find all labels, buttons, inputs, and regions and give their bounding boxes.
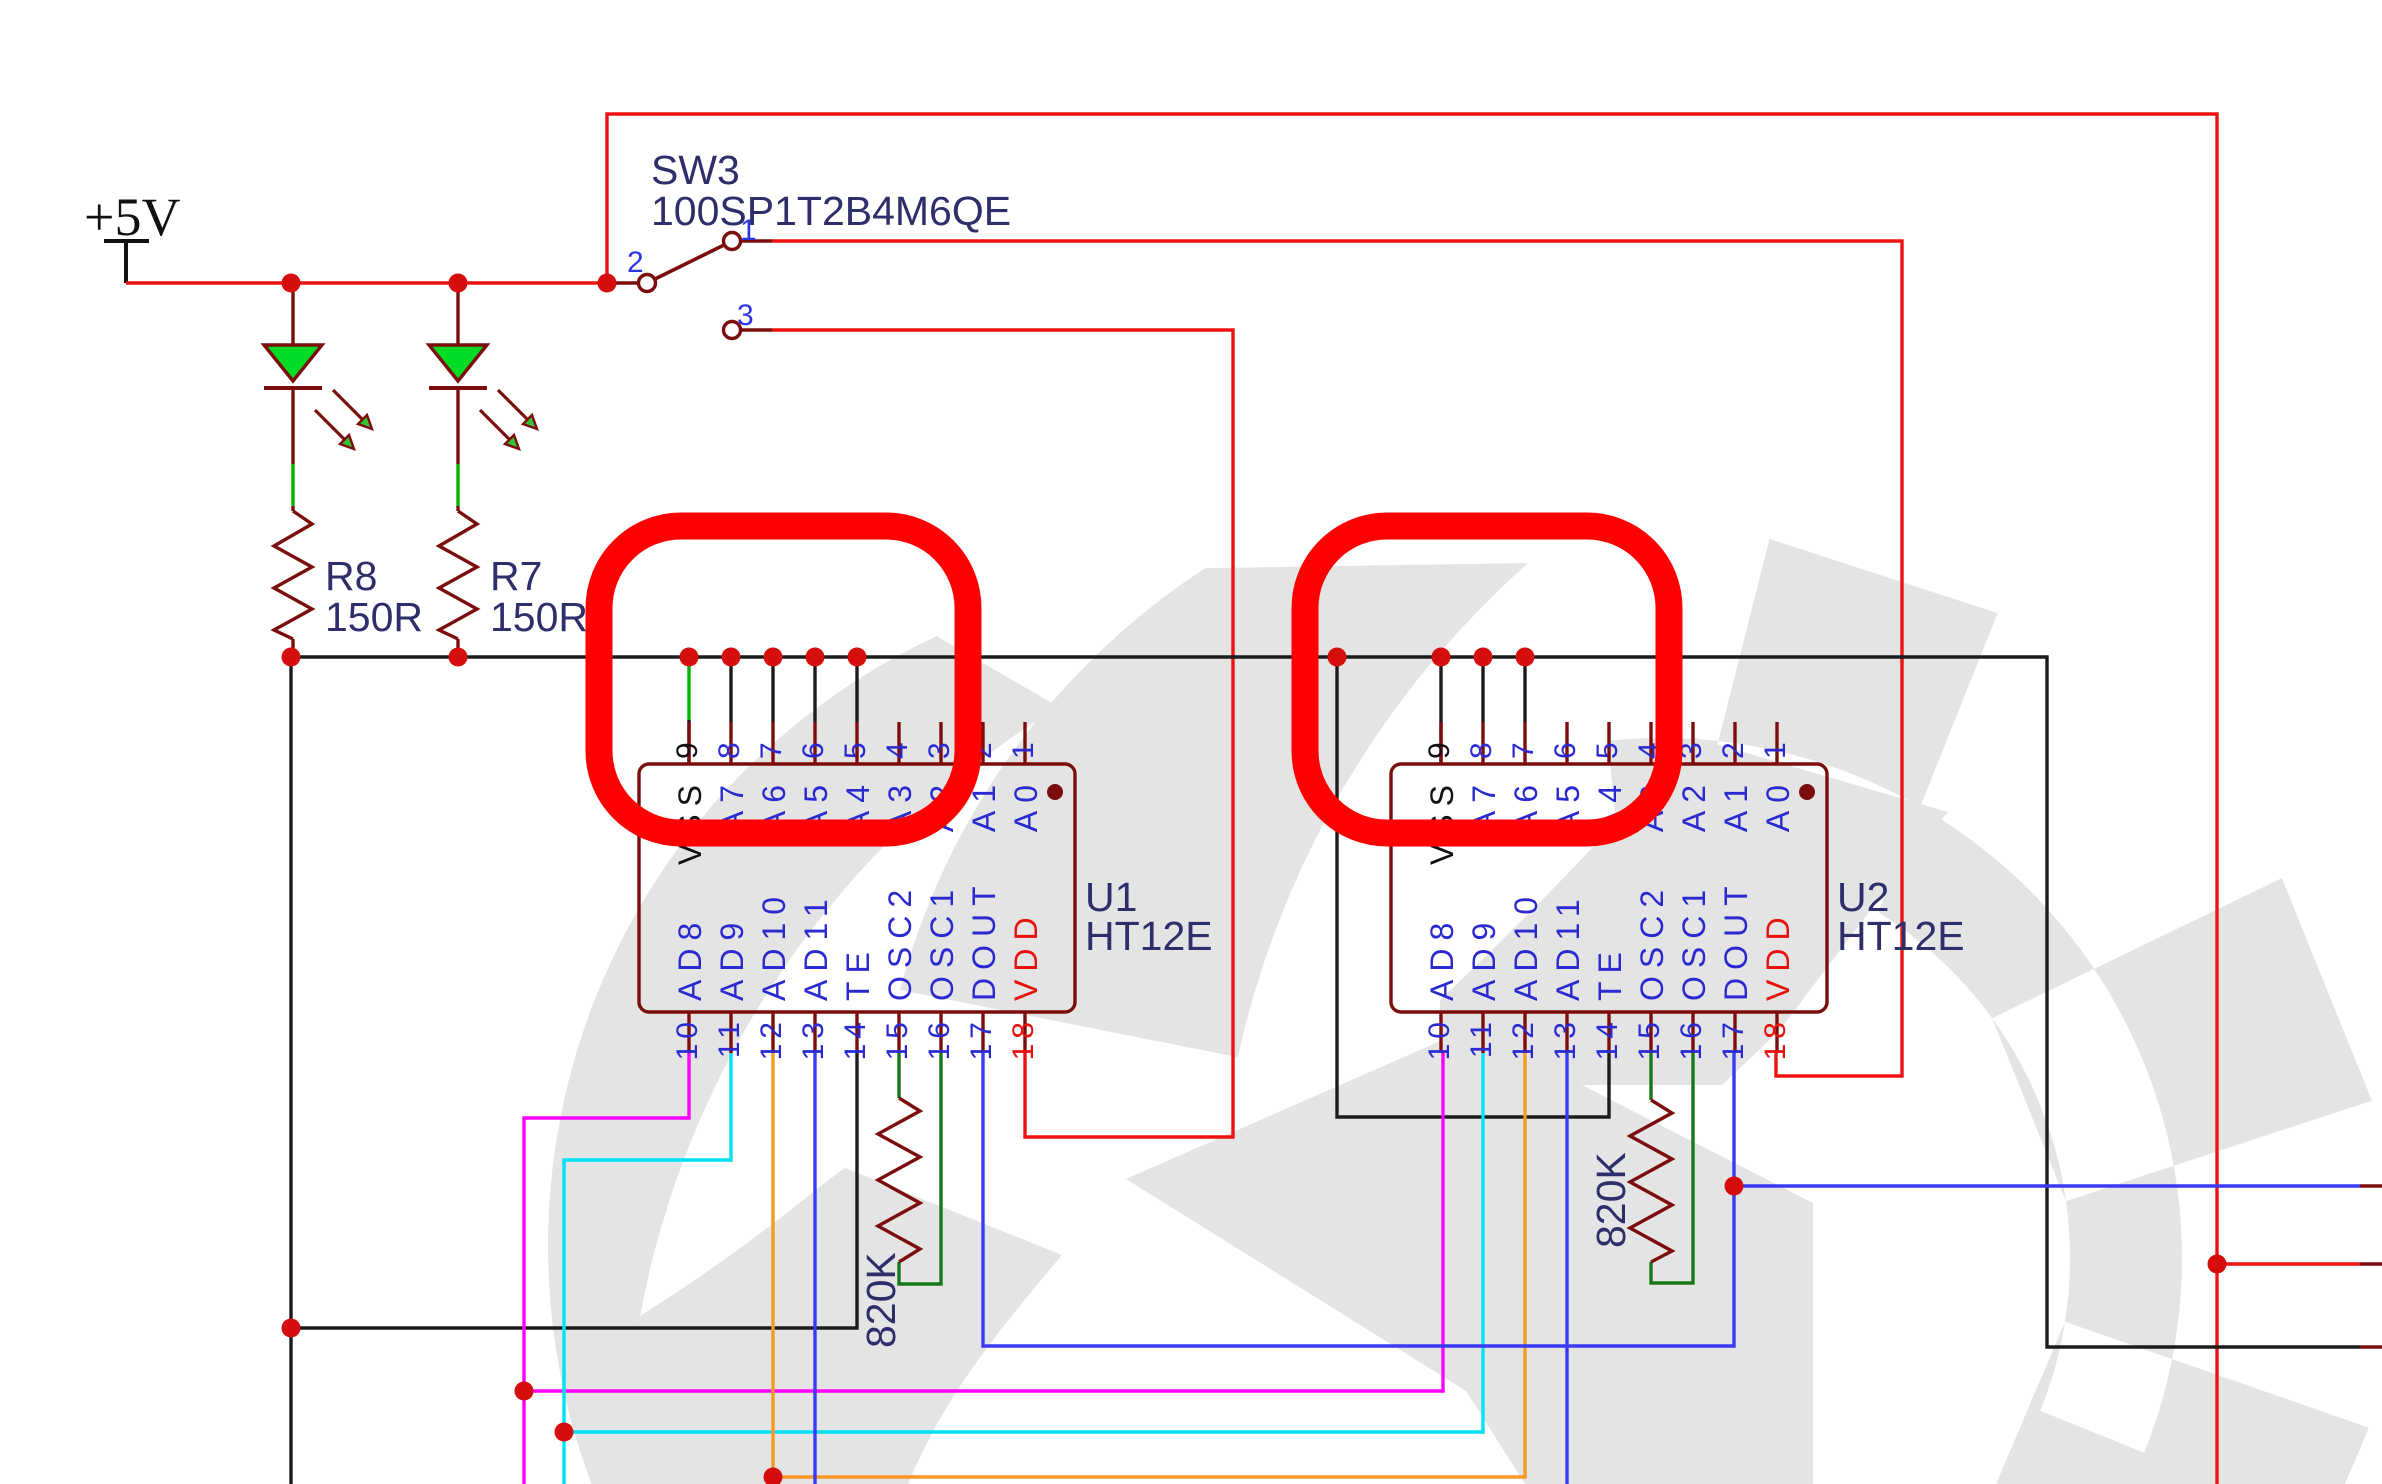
svg-text:6: 6 — [1549, 737, 1582, 759]
junction +5V rail / SW3 common — [598, 274, 617, 293]
svg-text:DOUT: DOUT — [1718, 878, 1754, 1001]
svg-text:1: 1 — [1007, 737, 1040, 759]
LED D1 — [429, 283, 537, 511]
resistor 820K U2 OSC net — [1588, 1053, 1693, 1283]
annotation circle 2 — [1305, 526, 1669, 833]
switch SW3 — [607, 147, 1011, 339]
IC U2 HT12E body — [1391, 764, 1827, 1012]
svg-text:12: 12 — [1507, 1017, 1540, 1060]
svg-text:A0: A0 — [1008, 777, 1044, 832]
wire black left vertical — [289, 657, 292, 1484]
svg-text:3: 3 — [737, 299, 754, 332]
svg-text:7: 7 — [1507, 737, 1540, 759]
svg-text:820K: 820K — [858, 1252, 904, 1348]
junction bus / U2 pin7 — [1516, 648, 1535, 667]
IC U1 HT12E body — [639, 764, 1075, 1012]
svg-text:R8: R8 — [325, 553, 377, 599]
maroon stub right edge red net — [2360, 1262, 2382, 1265]
svg-text:5: 5 — [1591, 737, 1624, 759]
svg-text:18: 18 — [1759, 1017, 1792, 1060]
svg-text:AD8: AD8 — [672, 915, 708, 1001]
svg-text:A0: A0 — [1760, 777, 1796, 832]
pin stubs bottom U2 — [1441, 1012, 1777, 1053]
svg-text:14: 14 — [1591, 1017, 1624, 1060]
svg-text:R7: R7 — [490, 553, 542, 599]
svg-text:HT12E: HT12E — [1837, 913, 1965, 959]
wire blue AD11 U1 — [813, 1053, 816, 1484]
svg-text:12: 12 — [755, 1017, 788, 1060]
svg-text:17: 17 — [965, 1017, 998, 1060]
junction ground bus / R8 — [282, 648, 301, 667]
svg-text:TE: TE — [1592, 944, 1628, 1001]
wire U1 A7-A4 drops — [731, 657, 857, 722]
wire +5V rail — [126, 281, 607, 284]
pin stubs top U2 — [1441, 722, 1777, 764]
svg-text:2: 2 — [1717, 737, 1750, 759]
junction bus / U1 pin9 — [680, 648, 699, 667]
svg-text:OSC1: OSC1 — [924, 882, 960, 1001]
power flag +5V — [84, 187, 180, 283]
watermark logo — [548, 539, 2372, 1484]
pin stubs bottom U1 — [689, 1012, 1025, 1053]
junction ground bus / R7 — [449, 648, 468, 667]
svg-text:11: 11 — [1465, 1017, 1498, 1058]
svg-text:9: 9 — [671, 737, 704, 759]
svg-text:18: 18 — [1007, 1017, 1040, 1060]
junction bus / U1 pin8 — [722, 648, 741, 667]
svg-text:16: 16 — [923, 1017, 956, 1060]
resistor 820K U1 OSC net — [858, 1053, 941, 1348]
maroon stub right edge black net — [2360, 1345, 2382, 1348]
wire switch pin3 to U1 VDD net — [772, 330, 1233, 1137]
svg-text:A2: A2 — [1676, 777, 1712, 832]
svg-text:100SP1T2B4M6QE: 100SP1T2B4M6QE — [651, 188, 1011, 234]
svg-text:17: 17 — [1717, 1017, 1750, 1060]
svg-text:7: 7 — [755, 737, 788, 759]
svg-text:15: 15 — [881, 1017, 914, 1060]
junction red net right — [2208, 1255, 2227, 1274]
wire blue DOUT net — [983, 1053, 2360, 1346]
svg-text:DOUT: DOUT — [966, 878, 1002, 1001]
svg-text:820K: 820K — [1588, 1152, 1634, 1248]
svg-text:TE: TE — [840, 944, 876, 1001]
junction U2 DOUT branch — [1725, 1177, 1744, 1196]
svg-text:A1: A1 — [1718, 777, 1754, 832]
wire orange AD10 net — [773, 1053, 1525, 1484]
svg-text:+5V: +5V — [84, 187, 180, 247]
svg-text:5: 5 — [839, 737, 872, 759]
svg-text:AD8: AD8 — [1424, 915, 1460, 1001]
wire switch pin1 to U2 VDD net — [772, 241, 1902, 1076]
svg-text:9: 9 — [1423, 737, 1456, 759]
svg-text:AD10: AD10 — [756, 889, 792, 1001]
svg-text:VDD: VDD — [1760, 909, 1796, 1001]
wire cyan AD9 net — [564, 1053, 1483, 1484]
svg-text:8: 8 — [713, 737, 746, 759]
junction orange net — [764, 1468, 783, 1484]
junction magenta net — [515, 1382, 534, 1401]
svg-text:SW3: SW3 — [651, 147, 740, 193]
junction black vertical / U1 TE — [282, 1319, 301, 1338]
junction bus / U2 TE drop — [1328, 648, 1347, 667]
wire U2 TE net — [1337, 657, 1609, 1117]
junction +5V rail / R7 — [449, 274, 468, 293]
svg-text:1: 1 — [740, 214, 757, 247]
wire SW3 common to top loop to right edge down — [607, 114, 2217, 1484]
wire U1 pin9 green segment — [687, 657, 690, 720]
junction bus / U2 pin8 — [1474, 648, 1493, 667]
svg-text:13: 13 — [797, 1017, 830, 1060]
annotation circle 1 — [599, 526, 968, 833]
svg-text:HT12E: HT12E — [1085, 913, 1213, 959]
LED D2 — [264, 283, 372, 511]
junction bus / U1 pin7 — [764, 648, 783, 667]
IC U2 HT12E — [1391, 722, 1965, 1060]
junction bus / U1 pin6 — [806, 648, 825, 667]
svg-text:AD10: AD10 — [1508, 889, 1544, 1001]
junction +5V rail / R8 — [282, 274, 301, 293]
wire black ground bus — [291, 657, 2360, 1347]
svg-text:OSC2: OSC2 — [1634, 882, 1670, 1001]
resistor R8 — [274, 511, 423, 657]
junction bus / U2 pin9 — [1432, 648, 1451, 667]
wire U1 TE net — [291, 1053, 857, 1328]
svg-text:2: 2 — [627, 246, 644, 279]
svg-text:VDD: VDD — [1008, 909, 1044, 1001]
wire red branch to right edge — [2217, 1262, 2360, 1265]
svg-text:OSC2: OSC2 — [882, 882, 918, 1001]
resistor R7 — [439, 511, 588, 657]
pin stubs top U1 — [689, 722, 1025, 764]
svg-text:8: 8 — [1465, 737, 1498, 759]
svg-text:6: 6 — [797, 737, 830, 759]
junction bus / U1 pin5 — [848, 648, 867, 667]
maroon stub right edge blue net — [2360, 1184, 2382, 1187]
svg-text:3: 3 — [923, 737, 956, 759]
svg-text:13: 13 — [1549, 1017, 1582, 1060]
svg-text:15: 15 — [1633, 1017, 1666, 1060]
svg-text:1: 1 — [1759, 737, 1792, 759]
svg-text:16: 16 — [1675, 1017, 1708, 1060]
junction cyan net — [555, 1423, 574, 1442]
svg-text:14: 14 — [839, 1017, 872, 1060]
svg-text:10: 10 — [671, 1017, 704, 1060]
wire blue AD11 U2 — [1565, 1053, 1568, 1484]
svg-text:150R: 150R — [490, 594, 588, 640]
wire magenta AD8 net — [524, 1053, 1443, 1484]
svg-text:AD11: AD11 — [1550, 891, 1586, 1001]
svg-text:AD11: AD11 — [798, 891, 834, 1001]
svg-text:AD9: AD9 — [714, 915, 750, 1001]
svg-text:OSC1: OSC1 — [1676, 882, 1712, 1001]
svg-text:11: 11 — [713, 1017, 746, 1058]
IC U1 HT12E — [639, 722, 1213, 1060]
wire U2 pin9-7 drops — [1441, 657, 1525, 764]
svg-text:AD9: AD9 — [1466, 915, 1502, 1001]
svg-text:4: 4 — [881, 737, 914, 759]
svg-text:150R: 150R — [325, 594, 423, 640]
svg-text:10: 10 — [1423, 1017, 1456, 1060]
